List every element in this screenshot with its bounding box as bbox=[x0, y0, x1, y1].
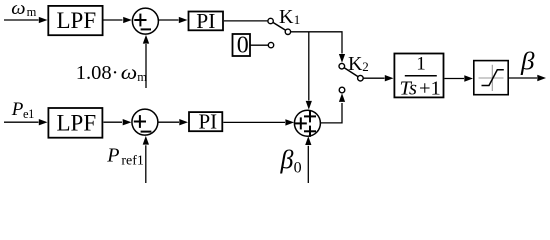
svg-text:m: m bbox=[137, 70, 147, 84]
wire LPF to summer S1 bbox=[104, 19, 123, 21]
wire 1.08*omega_m input to S1 bbox=[145, 44, 147, 88]
svg-text:0: 0 bbox=[237, 33, 249, 59]
wire K2 pole to lag block bbox=[364, 77, 385, 79]
svg-text:ω: ω bbox=[121, 62, 138, 84]
block PI (bottom) bbox=[189, 112, 222, 131]
svg-text:β: β bbox=[280, 145, 294, 174]
switch K2 pole bbox=[358, 75, 364, 81]
wire lag block to saturation block bbox=[445, 78, 465, 80]
svg-text:+1: +1 bbox=[419, 78, 441, 100]
switch K1 contact b bbox=[268, 42, 273, 47]
svg-text:2: 2 bbox=[362, 59, 369, 74]
wire S2 to PI (bottom) bbox=[159, 121, 180, 123]
wire PI to summer S3 bbox=[223, 121, 285, 123]
svg-text:ref1: ref1 bbox=[121, 153, 144, 168]
wire LPF to summer S2 bbox=[104, 121, 123, 123]
switch K2 blade bbox=[344, 68, 358, 77]
wire beta_0 input to S3 bbox=[307, 146, 309, 183]
svg-text:1: 1 bbox=[416, 53, 426, 74]
wire S3 output up to K2 contact b bbox=[321, 103, 342, 123]
svg-text:ω: ω bbox=[11, 0, 25, 19]
block PI (top) bbox=[189, 12, 224, 31]
svg-text:P: P bbox=[11, 99, 24, 120]
svg-text:LPF: LPF bbox=[57, 110, 97, 135]
wire S1 to PI (top) bbox=[159, 19, 179, 21]
switch K1 contact a bbox=[268, 18, 273, 23]
wire P_ref1 input to S2 bbox=[145, 145, 147, 183]
block saturation limiter bbox=[474, 61, 508, 95]
svg-text:m: m bbox=[27, 5, 37, 19]
wire P_e1 input bbox=[4, 121, 39, 123]
svg-text:1.08·: 1.08· bbox=[76, 62, 119, 84]
wire 0 to K1 contact b bbox=[250, 44, 268, 46]
switch K2 contact b bbox=[339, 87, 345, 93]
svg-text:e1: e1 bbox=[23, 107, 34, 121]
wire K1 pole to K2 (corner) bbox=[291, 32, 342, 54]
wire omega_m input bbox=[4, 19, 39, 21]
block LPF (top) bbox=[48, 6, 102, 35]
svg-text:PI: PI bbox=[196, 9, 215, 33]
block LPF (bottom) bbox=[48, 108, 102, 138]
svg-text:0: 0 bbox=[294, 160, 302, 177]
block 1/(Ts+1) bbox=[394, 54, 443, 98]
switch K1 blade bbox=[273, 22, 286, 30]
svg-text:K: K bbox=[279, 6, 294, 28]
wire output beta bbox=[509, 77, 537, 79]
svg-text:LPF: LPF bbox=[57, 8, 97, 33]
svg-text:β: β bbox=[520, 48, 535, 75]
wire PI to switch K1 bbox=[224, 20, 268, 22]
summing junction S1 bbox=[132, 8, 158, 34]
summing junction S3 bbox=[294, 110, 320, 136]
svg-text:1: 1 bbox=[294, 12, 301, 27]
svg-text:P: P bbox=[106, 144, 119, 166]
switch K2 contact a bbox=[339, 63, 345, 69]
svg-text:Ts: Ts bbox=[400, 78, 418, 100]
switch K1 pole bbox=[285, 29, 290, 34]
block 0 bbox=[233, 34, 251, 56]
svg-text:PI: PI bbox=[199, 110, 218, 134]
summing junction S2 bbox=[132, 109, 158, 135]
wire branch down to summer S3 bbox=[308, 32, 310, 100]
